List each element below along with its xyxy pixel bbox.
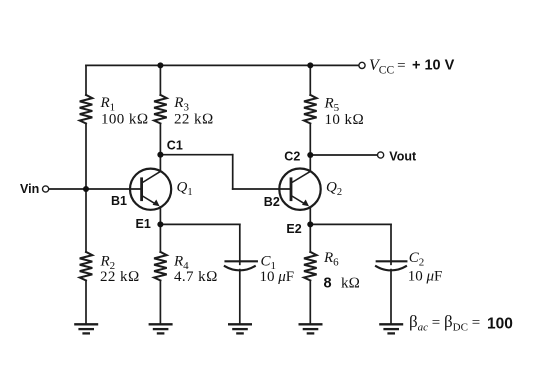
svg-text:E2: E2 [286, 222, 301, 236]
svg-text:100: 100 [487, 316, 513, 333]
resistor R4 [154, 252, 167, 281]
wire R5 bottom to C2 node [309, 123, 311, 155]
node E1 [157, 221, 163, 227]
svg-text:B1: B1 [111, 194, 127, 208]
svg-text:E1: E1 [136, 217, 151, 231]
svg-text:Q2: Q2 [326, 179, 342, 198]
terminal VCC [359, 62, 365, 68]
wire Q1 emitter to E1 node [159, 207, 161, 225]
svg-text:βac = βDC =: βac = βDC = [409, 312, 480, 334]
wire R2 bottom to ground [85, 280, 87, 324]
wire C1 cap bottom lead to ground [239, 270, 241, 324]
capacitor C2 [376, 261, 406, 270]
ground below C1 [228, 324, 252, 333]
node C2 [307, 152, 313, 158]
terminal Vout [378, 152, 384, 158]
wire C1 node to Q1 collector [159, 155, 161, 172]
wire left rail R1 top [85, 65, 87, 95]
ground below R4 [149, 324, 173, 333]
svg-text:22 kΩ: 22 kΩ [174, 111, 214, 127]
transistor Q1 [130, 169, 171, 210]
node Vin junction [83, 186, 89, 192]
wire R3 top [159, 65, 161, 95]
wire R5 top [309, 65, 311, 95]
node C1 [157, 152, 163, 158]
svg-text:4.7 kΩ: 4.7 kΩ [174, 269, 218, 285]
wire R3 bottom to C1 node [159, 123, 161, 154]
wire coupling to base Q2 [233, 188, 290, 190]
wire E1 to C1 cap [160, 223, 239, 225]
wire C1 cap top lead [239, 224, 241, 264]
svg-text:8: 8 [324, 275, 332, 291]
resistor R5 [304, 95, 317, 124]
svg-text:+ 10 V: + 10 V [412, 58, 455, 74]
node E2 [307, 221, 313, 227]
svg-text:10 kΩ: 10 kΩ [325, 112, 365, 128]
ground below C2 [379, 324, 403, 333]
transistor Q2 [279, 169, 320, 210]
svg-text:C2: C2 [284, 149, 300, 163]
wire Vin to base Q1 [49, 188, 141, 190]
wire E1 to R4 top [159, 224, 161, 252]
node top rail R3 junction [157, 62, 163, 68]
wire R6 bottom to ground [309, 280, 311, 324]
svg-text:kΩ: kΩ [341, 276, 360, 292]
wire top rail [86, 64, 359, 66]
wire coupling down [232, 155, 234, 189]
ground below R2 [74, 324, 98, 333]
svg-text:100 kΩ: 100 kΩ [101, 111, 149, 127]
svg-text:VCC =: VCC = [369, 57, 406, 77]
wire E2 to C2 cap [310, 223, 391, 225]
resistor R2 [80, 252, 93, 281]
svg-text:22 kΩ: 22 kΩ [100, 269, 140, 285]
svg-text:Vin: Vin [20, 182, 39, 196]
wire C2 node to Q2 collector [309, 155, 311, 171]
resistor R1 [80, 95, 93, 124]
svg-text:Q1: Q1 [177, 179, 193, 198]
svg-text:C1: C1 [167, 138, 183, 152]
wire C2 cap top lead [390, 224, 392, 264]
svg-text:Vout: Vout [389, 149, 417, 163]
capacitor C1 [225, 261, 257, 270]
wire R1 bottom to Vin node [85, 123, 87, 252]
svg-text:C2: C2 [409, 250, 425, 269]
svg-text:10 μF: 10 μF [260, 269, 295, 285]
wire C2 cap bottom lead to ground [390, 270, 392, 324]
node top rail R5 junction [307, 62, 313, 68]
svg-text:R6: R6 [323, 250, 339, 269]
resistor R3 [154, 95, 167, 124]
wire E2 to R6 top [309, 224, 311, 252]
ground below R6 [299, 324, 323, 333]
svg-text:B2: B2 [264, 195, 280, 209]
wire C2 node to Vout [310, 154, 377, 156]
node junction dots [83, 62, 313, 227]
wire coupling C1 node right [160, 154, 232, 156]
svg-text:10 μF: 10 μF [408, 269, 443, 285]
wire Q2 emitter to E2 node [309, 207, 311, 224]
terminal Vin [43, 186, 49, 192]
wire R4 bottom to ground [159, 280, 161, 324]
resistor R6 [304, 252, 317, 281]
